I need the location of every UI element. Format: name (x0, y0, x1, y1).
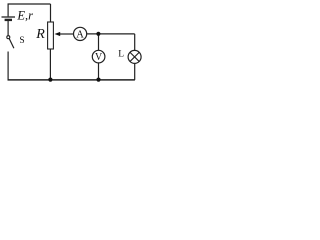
ammeter A circle (74, 27, 87, 40)
voltmeter V circle (92, 50, 105, 63)
wire bottom rail (8, 79, 135, 81)
wire voltmeter bottom to rail (98, 63, 100, 80)
wire top rail (8, 3, 51, 5)
battery E,r long plate (2, 16, 16, 18)
resistor R body (48, 22, 54, 49)
lamp L cross stroke 2 (130, 52, 139, 61)
wire lamp branch top (134, 34, 136, 51)
lamp L cross stroke 1 (130, 52, 139, 61)
wire top rail to resistor top (50, 4, 52, 22)
junction node voltmeter-bottom (96, 78, 100, 82)
svg-text:R: R (35, 27, 45, 42)
wire left vertical (top) (7, 4, 9, 16)
svg-text:E,r: E,r (16, 8, 33, 22)
wiper arrowhead (55, 32, 61, 36)
svg-text:L: L (118, 50, 124, 60)
junction node resistor-bottom (48, 78, 52, 82)
wire switch to bottom rail (7, 52, 9, 80)
wire wiper arrow stem (60, 33, 74, 35)
battery E,r short thick plate (5, 19, 12, 21)
lamp L circle (128, 50, 141, 63)
switch S pivot (7, 36, 10, 39)
wire lamp bottom to rail (134, 63, 136, 80)
wire ammeter to lamp corner (87, 33, 135, 35)
svg-text:V: V (95, 52, 103, 63)
wire battery to switch (7, 21, 9, 36)
wire resistor bottom to rail (49, 49, 51, 80)
wire voltmeter branch top (98, 34, 100, 51)
junction node after ammeter (96, 32, 100, 36)
svg-text:A: A (76, 30, 84, 41)
switch S blade (9, 39, 14, 49)
svg-text:S: S (19, 36, 24, 46)
